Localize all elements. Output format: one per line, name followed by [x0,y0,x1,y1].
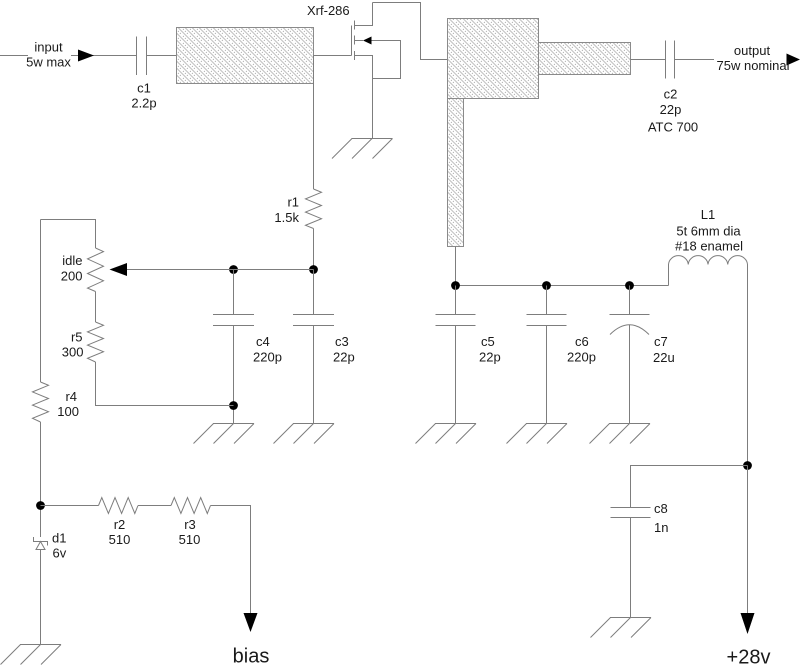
svg-text:c8: c8 [654,501,668,516]
ground at C8 [591,618,652,638]
microstrip input stub [177,28,314,84]
svg-text:L1: L1 [701,207,715,222]
ground at C4 [194,424,255,444]
svg-text:510: 510 [109,532,131,547]
wire R5 to C4 bottom junction [96,362,234,406]
wire R4 to D1 junction [40,422,42,537]
wire pot to R5 [95,292,97,323]
svg-text:300: 300 [62,345,84,360]
svg-text:output: output [734,43,771,58]
svg-text:22p: 22p [660,102,682,117]
wire junction to C8 [631,466,748,508]
node +28v junction [743,461,752,470]
svg-text:200: 200 [61,269,83,284]
wire drain bypass bus [456,285,669,287]
channel segments [354,21,356,61]
resistor R3 [171,498,211,514]
junction dot at C5 [451,281,460,290]
ground at C3 [274,424,335,444]
svg-text:1n: 1n [654,520,668,535]
svg-text:5t 6mm dia: 5t 6mm dia [676,224,741,239]
wire R1 to bias bus [313,229,315,270]
svg-text:c5: c5 [481,334,495,349]
svg-text:510: 510 [179,532,201,547]
inductor L1 [668,265,670,286]
ground at C6 [507,424,568,444]
svg-text:r1: r1 [287,195,299,210]
capacitor C2 [666,41,675,79]
resistor R5 [88,322,104,362]
ground at Q1 source [332,139,393,159]
wiper arrow [110,263,128,276]
svg-text:idle: idle [62,253,82,268]
microstrip shunt stub [448,99,464,247]
wire stub to gate of Q1 [314,55,352,57]
svg-text:c4: c4 [256,334,270,349]
junction dot at C6 [542,281,551,290]
resistor R4 [33,382,49,422]
svg-text:d1: d1 [52,531,66,546]
resistor R1 [313,56,315,190]
svg-text:22u: 22u [653,350,675,365]
svg-text:+28v: +28v [727,647,771,667]
svg-text:22p: 22p [479,350,501,365]
transistor Q1 Xrf-286 [307,3,401,139]
potentiometer idle [88,248,104,292]
junction dot at D1 [36,501,45,510]
wire left rail top [41,220,96,249]
wire left rail [40,220,42,383]
svg-text:22p: 22p [333,350,355,365]
capacitor C7 [629,286,631,315]
svg-text:1.5k: 1.5k [274,210,299,225]
ground at D1 [1,645,62,665]
capacitor C3 [313,270,315,315]
svg-text:Xrf-286: Xrf-286 [307,3,350,18]
svg-text:c7: c7 [654,334,668,349]
svg-text:220p: 220p [253,350,282,365]
microstrip output line [539,43,631,75]
wire drain to output stub [373,3,448,60]
svg-text:75w nominal: 75w nominal [717,58,790,73]
svg-text:c6: c6 [575,334,589,349]
bias arrow [244,613,258,632]
wire input lead at left edge [0,55,28,57]
gate bar [351,26,353,56]
wire shunt stub to bus [455,247,457,286]
svg-text:r2: r2 [114,517,126,532]
+28v arrow [741,613,755,634]
wire R2 to R3 [138,505,171,507]
wire junction to +28v arrow [747,466,749,614]
svg-text:6v: 6v [53,546,67,561]
capacitor C4 [233,270,235,315]
output arrow [787,54,800,66]
svg-text:r4: r4 [65,389,77,404]
resistor R2 [99,498,139,514]
junction dot at C7 [625,281,634,290]
svg-text:#18 enamel: #18 enamel [675,239,743,254]
source lead [355,56,373,139]
wire output line to C2 [631,59,666,61]
svg-text:2.2p: 2.2p [131,96,156,111]
capacitor C6 [546,286,548,315]
svg-text:100: 100 [57,404,79,419]
svg-text:c1: c1 [137,81,151,96]
body lead with arrow [355,40,364,42]
drain lead [355,3,373,26]
svg-text:ATC 700: ATC 700 [648,120,698,135]
wire C2 to output [675,59,715,61]
ground at C7 [590,424,651,444]
wire C1 to input stub [147,55,177,57]
zener diode D1 [34,537,48,546]
capacitor C8 [611,508,651,518]
svg-text:220p: 220p [567,350,596,365]
microstrip output block [448,19,539,99]
wire junction to R2 [41,505,99,507]
input arrow [78,50,94,62]
wire R3 to bias arrow [211,506,251,614]
capacitor C5 [455,286,457,315]
junction dot at C4 bottom [229,401,238,410]
junction dot at C4 top [229,265,238,274]
ground at C5 [416,424,477,444]
svg-text:c3: c3 [335,334,349,349]
svg-text:r5: r5 [71,330,83,345]
junction dot at R1 bottom [309,265,318,274]
svg-text:bias: bias [233,646,270,667]
wire L1 to +28v node [747,265,749,466]
capacitor C1 [137,37,147,76]
wire wiper bus [127,269,314,271]
wire input to C1 [71,55,137,57]
svg-text:c2: c2 [664,87,678,102]
svg-text:5w max: 5w max [26,55,71,70]
svg-text:r3: r3 [184,517,196,532]
svg-text:input: input [34,40,63,55]
wire D1 to ground [40,550,42,645]
